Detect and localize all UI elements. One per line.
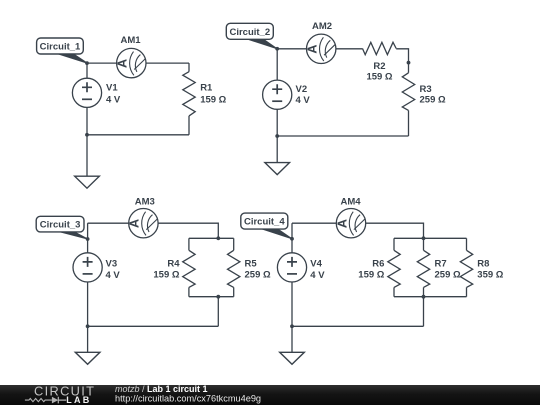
voltage source V2 xyxy=(263,80,292,109)
svg-text:AM3: AM3 xyxy=(135,196,155,207)
footer bar xyxy=(0,385,540,405)
wire xyxy=(88,325,219,327)
wire xyxy=(233,287,235,296)
svg-text:V1: V1 xyxy=(106,82,118,93)
wire xyxy=(336,48,363,50)
ammeter AM3 xyxy=(129,209,158,238)
svg-text:159 Ω: 159 Ω xyxy=(200,94,226,105)
node (V4- rail) xyxy=(290,324,294,328)
node (bottom bar) xyxy=(216,295,220,299)
wire xyxy=(87,62,117,64)
wire xyxy=(86,135,88,176)
voltage source V4 xyxy=(277,253,306,282)
svg-text:R7: R7 xyxy=(435,259,447,270)
svg-text:http://circuitlab.com/cx76tkcm: http://circuitlab.com/cx76tkcmu4e9g xyxy=(115,393,261,403)
resistor R3 xyxy=(402,73,414,111)
node (R2-R3) xyxy=(407,61,411,65)
resistor R6 xyxy=(388,250,400,287)
wire xyxy=(291,223,293,253)
wire xyxy=(291,282,293,326)
resistor R5 xyxy=(228,250,240,287)
wire xyxy=(276,109,278,136)
wire xyxy=(277,135,408,137)
svg-text:R5: R5 xyxy=(245,259,258,270)
node Circuit_2 xyxy=(275,47,279,51)
svg-text:Circuit_2: Circuit_2 xyxy=(229,27,270,38)
voltage source V3 xyxy=(73,253,102,282)
svg-text:4 V: 4 V xyxy=(106,270,121,281)
svg-text:4 V: 4 V xyxy=(106,94,121,105)
wire xyxy=(394,296,467,298)
wire xyxy=(276,49,278,80)
wire xyxy=(217,297,219,327)
svg-text:A: A xyxy=(306,45,320,54)
ammeter AM1 xyxy=(117,48,146,77)
wire xyxy=(394,237,467,239)
svg-text:R2: R2 xyxy=(373,61,385,72)
wire xyxy=(87,326,89,352)
node Circuit_4 xyxy=(290,237,294,241)
wire xyxy=(277,48,306,50)
wire xyxy=(146,62,189,64)
wire xyxy=(86,63,88,78)
svg-text:159 Ω: 159 Ω xyxy=(366,72,392,83)
svg-text:A: A xyxy=(335,219,349,228)
svg-text:R1: R1 xyxy=(200,82,213,93)
wire xyxy=(188,287,190,296)
svg-text:259 Ω: 259 Ω xyxy=(245,269,271,280)
svg-text:AM4: AM4 xyxy=(340,196,361,207)
wire xyxy=(291,326,293,352)
wire xyxy=(88,222,129,224)
wire xyxy=(393,238,395,250)
svg-text:259 Ω: 259 Ω xyxy=(435,269,461,280)
wire xyxy=(189,296,234,298)
resistor R4 xyxy=(183,250,195,287)
wire xyxy=(408,110,410,136)
ground xyxy=(75,176,100,188)
svg-text:AM1: AM1 xyxy=(120,35,141,46)
wire xyxy=(366,223,424,238)
resistor R7 xyxy=(417,250,429,287)
wire xyxy=(87,223,89,253)
ground xyxy=(75,352,100,364)
svg-text:AM2: AM2 xyxy=(312,21,332,32)
resistor R8 xyxy=(460,250,472,287)
svg-text:R3: R3 xyxy=(420,84,432,95)
svg-text:Circuit_1: Circuit_1 xyxy=(40,42,81,53)
ground xyxy=(265,163,290,175)
svg-text:V4: V4 xyxy=(310,259,322,270)
node (top bar) xyxy=(422,236,426,240)
flag Circuit_4 xyxy=(255,227,292,239)
svg-text:Circuit_3: Circuit_3 xyxy=(40,220,81,231)
svg-text:R6: R6 xyxy=(372,259,384,270)
CircuitLab logo: resistor+diode squiggle xyxy=(25,399,52,402)
flag Circuit_3 xyxy=(51,229,88,239)
svg-text:R8: R8 xyxy=(477,259,489,270)
wire xyxy=(86,107,88,134)
svg-text:359 Ω: 359 Ω xyxy=(477,269,503,280)
svg-text:259 Ω: 259 Ω xyxy=(420,94,446,105)
wire xyxy=(393,287,395,296)
ground xyxy=(280,352,305,364)
wire xyxy=(233,238,235,250)
wire xyxy=(292,325,424,327)
wire xyxy=(396,49,408,63)
svg-text:LAB: LAB xyxy=(66,395,91,405)
resistor R2 xyxy=(363,42,397,54)
wire xyxy=(188,116,190,135)
svg-text:Circuit_4: Circuit_4 xyxy=(244,217,285,228)
wire xyxy=(292,222,336,224)
wire xyxy=(188,63,190,72)
svg-text:A: A xyxy=(128,219,142,228)
flag Circuit_1 xyxy=(51,52,88,64)
svg-text:4 V: 4 V xyxy=(296,95,311,106)
ammeter AM2 xyxy=(307,34,336,63)
wire xyxy=(188,238,190,250)
wire xyxy=(87,282,89,326)
svg-text:A: A xyxy=(116,59,130,68)
node Circuit_3 xyxy=(86,237,90,241)
node Circuit_1 xyxy=(85,61,89,65)
resistor R1 xyxy=(183,72,195,116)
wire xyxy=(466,287,468,296)
wire xyxy=(466,238,468,250)
flag Circuit_2 xyxy=(240,37,277,49)
svg-text:V2: V2 xyxy=(296,84,308,95)
wire xyxy=(158,223,218,238)
svg-text:R4: R4 xyxy=(167,259,180,270)
node (V2- rail) xyxy=(275,134,279,138)
wire xyxy=(87,134,189,136)
node (bottom bar) xyxy=(422,295,426,299)
svg-text:159 Ω: 159 Ω xyxy=(153,269,179,280)
node (top bar) xyxy=(216,236,220,240)
ammeter AM4 xyxy=(336,209,365,238)
wire xyxy=(423,238,425,250)
wire xyxy=(408,63,410,73)
wire xyxy=(423,287,425,296)
svg-text:159 Ω: 159 Ω xyxy=(358,269,384,280)
node (V3- rail) xyxy=(86,324,90,328)
svg-text:V3: V3 xyxy=(106,259,118,270)
node (V1- rail) xyxy=(85,133,89,137)
wire xyxy=(276,136,278,163)
wire xyxy=(189,237,234,239)
svg-text:4 V: 4 V xyxy=(310,270,325,281)
voltage source V1 xyxy=(72,78,101,107)
wire xyxy=(423,297,425,327)
